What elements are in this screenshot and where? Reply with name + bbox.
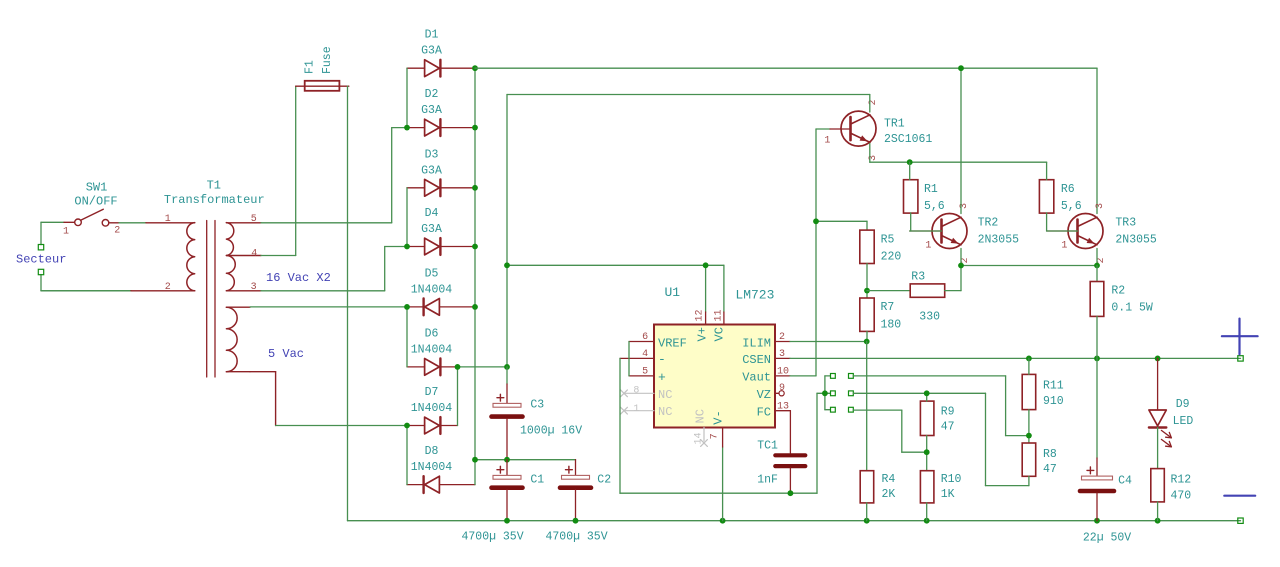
wire 0V bottom rail [348,520,1241,522]
wire R9 top [926,393,928,401]
wire R10 bottom [926,503,928,521]
svg-text:ILIM: ILIM [742,336,771,350]
wire jumper R3 to R9 bottom [853,410,926,452]
svg-text:2N3055: 2N3055 [978,234,1020,247]
U1 pin 4 inverting [620,349,666,367]
U1 pin 13 FC [757,402,791,420]
svg-text:V+: V+ [695,327,709,341]
svg-text:1: 1 [633,404,639,415]
junction R5/R7/R3 [864,288,870,294]
svg-text:VREF: VREF [658,336,687,350]
diode D2 [407,119,475,136]
junction diode bus dots [404,65,478,428]
U1 pin 8 NC [621,386,673,402]
svg-text:47: 47 [1043,463,1057,476]
svg-text:3: 3 [251,282,257,293]
U1 pin 14 NC [694,409,708,446]
capacitor C1 [492,460,523,521]
wire R6 to TR3 base [1047,213,1078,231]
svg-text:3: 3 [779,349,785,360]
svg-text:Fuse: Fuse [321,46,334,74]
wire TR1 collector [869,95,871,113]
wire + bus diode cathodes [474,68,476,484]
wire R4 bottom [866,503,868,521]
svg-text:2SC1061: 2SC1061 [884,133,932,146]
svg-text:TR1: TR1 [884,117,905,130]
junction emitter rail [958,263,1100,269]
diode D3 [407,179,475,196]
svg-text:ON/OFF: ON/OFF [74,195,117,209]
svg-text:16 Vac X2: 16 Vac X2 [266,271,331,285]
svg-text:TC1: TC1 [757,439,778,452]
svg-text:910: 910 [1043,395,1064,408]
svg-text:Vaut: Vaut [742,371,771,385]
svg-text:5: 5 [642,366,648,377]
wire 5Vac bottom to D7/D8 [250,372,407,426]
svg-text:1: 1 [63,226,69,237]
svg-text:1: 1 [165,214,171,225]
svg-text:TR2: TR2 [978,216,999,229]
svg-text:D2: D2 [425,88,439,101]
svg-text:2N3055: 2N3055 [1115,234,1157,247]
capacitor C2 [560,460,591,521]
node jumper pad R3 [849,407,854,412]
svg-text:4: 4 [251,248,257,259]
svg-text:V-: V- [711,410,725,424]
svg-text:R11: R11 [1043,380,1064,393]
svg-text:5,6: 5,6 [1061,200,1082,213]
Secteur terminal square bottom [38,269,43,274]
wire cap top rail [475,459,576,461]
svg-text:R8: R8 [1043,448,1057,461]
svg-text:1N4004: 1N4004 [411,343,453,356]
wire emitter rail [961,249,1097,266]
node jumper pad R1 [849,374,854,379]
svg-text:5,6: 5,6 [924,200,945,213]
diode D1 [407,60,475,77]
wire ILIM run [790,341,867,343]
svg-text:D6: D6 [425,327,439,340]
svg-text:470: 470 [1171,490,1192,503]
U1 pin 5 non-inverting [629,366,666,385]
svg-text:D7: D7 [425,386,439,399]
node jumper pad L2 [831,391,836,396]
svg-text:FC: FC [757,405,771,419]
svg-text:Secteur: Secteur [16,252,66,266]
node jumper pad R2 [849,391,854,396]
svg-text:1N4004: 1N4004 [411,283,453,296]
wire R5 to R7 [866,264,868,299]
svg-text:R6: R6 [1061,183,1075,196]
svg-text:1: 1 [824,136,830,147]
diode D6 [407,359,458,376]
svg-text:9: 9 [779,383,785,394]
svg-text:5 Vac: 5 Vac [268,347,304,361]
capacitor TC1 [775,411,805,494]
svg-text:13: 13 [777,402,789,413]
Secteur terminal square top [38,245,43,250]
svg-text:VC: VC [713,327,727,341]
svg-text:-: - [658,352,666,367]
wire T1 pin3 to D3/D4 [261,247,407,291]
svg-text:VZ: VZ [757,388,771,402]
diode D5 [407,299,475,316]
wire T1 pin5 to D1/D2 [261,128,407,223]
wire R8 bottom [1028,476,1030,485]
svg-text:D8: D8 [425,445,439,458]
resistor R4 [860,471,895,503]
svg-text:R4: R4 [882,473,896,486]
node jumper pad L1 [831,374,836,379]
svg-text:10: 10 [777,366,789,377]
resistor R2 [1090,282,1153,317]
svg-text:7: 7 [709,433,720,439]
svg-text:LED: LED [1173,415,1194,428]
svg-text:0.1 5W: 0.1 5W [1111,301,1153,314]
junction aux rail [504,262,708,369]
svg-text:NC: NC [658,405,672,419]
wire aux rail to TR1 collector [507,95,870,367]
svg-text:180: 180 [881,319,902,332]
U1 pin 11 VC [713,309,727,341]
svg-text:1000µ 16V: 1000µ 16V [520,424,582,437]
svg-text:R9: R9 [941,405,955,418]
svg-text:R10: R10 [941,473,962,486]
svg-text:1nF: 1nF [757,474,778,487]
junction R9 top [924,390,930,396]
wire jumper R1 to R11/R8 node [853,376,1029,436]
svg-text:CSEN: CSEN [742,353,771,367]
wire D5-D6 left [406,307,408,367]
svg-text:D5: D5 [425,267,439,280]
svg-text:C2: C2 [597,474,611,487]
svg-text:330: 330 [919,310,940,323]
svg-text:2: 2 [114,225,120,236]
wire CSEN output rail [790,357,1241,359]
svg-text:+: + [658,370,666,385]
wire ILIM to R4 [866,342,868,471]
svg-text:T1: T1 [207,179,221,193]
U1 pin 10 Vout [742,366,790,384]
svg-text:R7: R7 [881,301,895,314]
wire D7-D8 left [406,426,408,485]
jumper left pads bracket [822,376,830,410]
U1 pin 12 V+ [695,309,710,341]
junction cap rail [472,457,510,463]
resistor R11 [1022,374,1064,409]
U1 pin 7 V- [709,410,725,520]
svg-text:D9: D9 [1176,398,1190,411]
wire switch to T1 pin 1 [119,222,146,224]
svg-text:D1: D1 [425,29,439,42]
svg-text:R12: R12 [1171,474,1192,487]
svg-text:G3A: G3A [421,164,442,177]
wire R11 top [1028,358,1030,374]
U1 pin 3 CSEN [742,349,790,367]
svg-text:1: 1 [925,240,931,251]
svg-text:R5: R5 [881,233,895,246]
svg-text:G3A: G3A [421,45,442,58]
transformer T1 secondary 16Vac winding [226,223,261,291]
transformer T1 primary winding [131,223,195,291]
capacitor C4 [1080,358,1114,520]
resistor R8 [1022,443,1057,476]
svg-text:14: 14 [694,432,705,444]
svg-text:C1: C1 [530,474,544,487]
wire R12 bottom [1157,502,1159,521]
svg-text:2K: 2K [882,488,896,501]
svg-text:C3: C3 [530,399,544,412]
svg-text:6: 6 [642,332,648,343]
node output minus symbol [1224,495,1255,497]
led D9 [1149,358,1172,468]
svg-text:4700µ 35V: 4700µ 35V [546,531,608,544]
svg-text:D3: D3 [425,148,439,161]
transistor TR1 [830,111,876,146]
wire R1 top [909,162,911,180]
wire 5Vac top to D5/D6 [250,306,407,308]
resistor R10 [920,471,961,503]
diode D4 [407,238,475,255]
svg-text:R3: R3 [911,270,925,283]
svg-text:220: 220 [881,251,902,264]
svg-text:NC: NC [658,388,672,402]
junction R9 bottom [924,449,930,455]
node output - square [1238,518,1243,523]
wire R7 to ILIM [866,331,868,341]
node output plus symbol [1222,319,1258,355]
wire R11 to R8 [1028,410,1030,443]
wire TR1 base tap to R5 [816,221,867,230]
wire TR3 emitter to R2 [1096,266,1098,282]
wire aux rail to IC V+ [507,265,724,312]
svg-text:LM723: LM723 [735,287,774,302]
resistor R9 [920,401,954,435]
wire TR1 emitter rail [870,144,1047,163]
transformer T1 secondary 5Vac winding [226,307,250,372]
svg-text:5: 5 [251,214,257,225]
svg-text:2: 2 [165,282,171,293]
wire R1 to TR2 base [910,213,942,231]
junction TC1 bottom [788,490,794,496]
svg-text:Transformateur: Transformateur [164,193,265,207]
wire jumper R2 to R9 top / R8 bottom [853,393,1029,485]
wire D1-D2 anodes [406,68,408,127]
wire R6 top [1046,162,1048,180]
resistor R12 [1151,469,1192,503]
U1 pin 6 VREF [629,332,687,351]
resistor R6 [1039,180,1081,214]
node jumper pad L3 [831,407,836,412]
node output + square [1238,356,1243,361]
svg-text:3: 3 [1095,203,1106,209]
transistor TR2 [910,214,967,249]
svg-text:R2: R2 [1111,284,1125,297]
svg-text:SW1: SW1 [86,180,108,194]
junction TR1 base tap [813,218,819,224]
transformer T1 core [207,221,215,378]
junction bottom rail [504,518,1160,524]
junction R11/R8 [1026,433,1032,439]
resistor R3 [910,270,945,323]
resistor R5 [860,230,902,264]
svg-text:F1: F1 [304,60,317,74]
capacitor C3 [492,367,523,460]
U1 pin 2 ILIM [742,332,790,350]
junction ILIM [864,339,870,345]
svg-text:TR3: TR3 [1115,216,1136,229]
wire +22V top rail [475,68,1097,213]
wire TR2 collector [960,68,962,213]
switch SW1 [64,209,119,226]
diode D7 [407,417,458,434]
svg-text:11: 11 [713,309,724,321]
svg-text:1K: 1K [941,488,955,501]
svg-text:4700µ 35V: 4700µ 35V [462,531,524,544]
transistor TR3 [1047,214,1103,249]
svg-text:D4: D4 [425,207,439,220]
wire R5/R7 to R3 [867,290,910,292]
svg-text:C4: C4 [1118,475,1132,488]
wire D3-D4 anodes [406,188,408,247]
svg-text:G3A: G3A [421,104,442,117]
U1 pin 9 VZ [757,383,785,402]
resistor R7 [860,298,902,332]
op-amp U1 LM723 body [654,325,775,428]
wire D6-D7 cathodes [455,364,507,426]
svg-text:1N4004: 1N4004 [411,461,453,474]
wire Vout to TR1 base [790,129,830,376]
svg-text:47: 47 [941,421,955,434]
U1 pin 1 NC [621,404,673,419]
diode D8 [407,476,475,493]
wire fuse to ground rail [347,86,349,521]
svg-text:U1: U1 [664,285,680,300]
svg-text:12: 12 [695,309,706,321]
node Secteur input wires [41,222,131,290]
svg-text:8: 8 [633,386,639,397]
svg-text:R1: R1 [924,183,938,196]
svg-text:G3A: G3A [421,223,442,236]
junction output rail [1026,356,1161,362]
junction top rail TR2 [958,65,964,71]
svg-text:4: 4 [642,349,648,360]
wire VREF to NI loop [628,342,630,376]
fuse F1 [296,81,349,91]
svg-text:NC: NC [694,409,708,423]
wire INV feedback run [620,358,825,493]
svg-text:22µ 50V: 22µ 50V [1083,532,1131,545]
wire R2 to output rail [1096,316,1098,358]
wire R3 to emitter rail [945,266,961,291]
resistor R1 [904,180,945,214]
wire R9 to R10 [926,436,928,471]
wire bottom to T1 pin 2 [41,290,131,292]
svg-text:1N4004: 1N4004 [411,402,453,415]
junction R1 top [907,159,913,165]
wire T1 pin4 to fuse [261,86,296,255]
svg-text:2: 2 [779,332,785,343]
svg-text:1: 1 [1061,240,1067,251]
